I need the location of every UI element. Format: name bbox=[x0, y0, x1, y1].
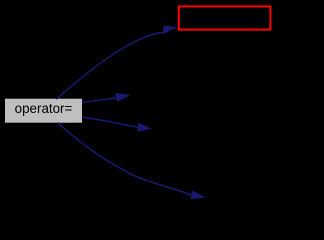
svg-text:operator=: operator= bbox=[15, 101, 73, 116]
